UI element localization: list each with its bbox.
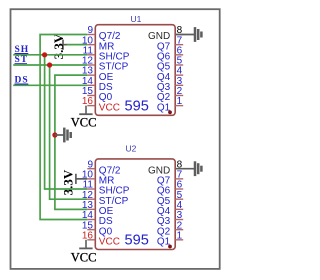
U1 pin name Q1: [157, 102, 171, 113]
U1 left pin 15 stub: [87, 94, 95, 96]
U1 pin number 2: [177, 86, 183, 97]
svg-text:1: 1: [177, 230, 183, 241]
wire ST net horizontal to U1 pin 12: [13, 64, 87, 66]
power symbol 3.3V at U1 pin 10: [51, 33, 68, 59]
U1 pin name GND: [148, 31, 170, 42]
U2 left pin 13 stub: [87, 208, 95, 210]
U1 right pin 2 stub: [175, 94, 183, 96]
power symbol VCC at U1 pin 16: [71, 106, 97, 130]
power symbol 3.3V at U2 pin 10: [60, 169, 87, 195]
svg-text:595: 595: [125, 233, 149, 249]
U2 pin name Q3: [157, 216, 171, 227]
U2 pin number 1: [177, 230, 183, 241]
U2 pin number 4: [177, 200, 183, 211]
U2 right pin 8 stub: [175, 168, 183, 170]
wire OE net U1 pin 13 to U2 pin 13: [55, 75, 87, 209]
U1 pin number 9: [87, 25, 93, 36]
U2 pin number 13: [82, 200, 94, 211]
U1 right pin 7 stub: [175, 44, 183, 46]
U2 pin name Q7: [157, 176, 171, 187]
U1 pin name Q5: [157, 62, 171, 73]
svg-text:VCC: VCC: [71, 116, 97, 130]
wire SH net horizontal to U1 pin 11: [13, 54, 87, 56]
U2 pin number 5: [177, 190, 183, 201]
U1 pin number 8: [177, 25, 183, 36]
U1 left pin 12 stub: [87, 64, 95, 66]
U1 pin number 6: [177, 45, 183, 56]
U1 pin number 15: [82, 86, 94, 97]
U2 pin name Q4: [157, 206, 171, 217]
U2 pin number 9: [87, 159, 93, 170]
U2 pin number 14: [82, 210, 94, 221]
U2 pin name Q2: [157, 226, 171, 237]
svg-text:16: 16: [82, 230, 94, 241]
U2 pin number 7: [177, 169, 183, 180]
net label SH: [15, 45, 30, 55]
U2 pin name Q0: [99, 226, 113, 237]
U2 pin name SH/CP: [99, 186, 130, 197]
U1 pin name Q2: [157, 92, 171, 103]
U1 pin number 5: [177, 56, 183, 67]
svg-text:VCC: VCC: [99, 237, 120, 248]
U1 pin-1 marker dot: [168, 110, 172, 114]
U2 left pin 12 stub: [87, 198, 95, 200]
U1 pin name ST/CP: [99, 62, 129, 73]
U2 left pin 15 stub: [87, 229, 95, 231]
U1 pin name Q4: [157, 72, 171, 83]
U2 right pin 7 stub: [175, 178, 183, 180]
wire SH vertical branch to U2 pin 11: [45, 55, 88, 189]
U1 right pin 8 stub: [175, 34, 183, 36]
U2 right pin 2 stub: [175, 229, 183, 231]
IC U1 74HC595 body: [95, 25, 175, 116]
junction ST net: [47, 62, 52, 67]
U2 pin number 15: [82, 220, 94, 231]
U1 pin number 4: [177, 66, 183, 77]
svg-text:595: 595: [125, 98, 149, 114]
U2 left pin 10 stub: [87, 178, 95, 180]
U2 pin name Q7/2: [99, 165, 121, 176]
ground symbol GND at U2 pin 8: [176, 161, 202, 176]
U1 right pin 1 stub: [175, 105, 183, 107]
wire DS net horizontal to U1 pin 14: [13, 84, 87, 86]
U1 value label 595: [125, 98, 149, 114]
U2 pin name GND: [148, 165, 170, 176]
svg-text:3.3V: 3.3V: [60, 169, 75, 195]
U1 pin name Q0: [99, 92, 113, 103]
net label DS: [15, 75, 29, 85]
U2 pin name MR: [99, 176, 115, 187]
U1 pin number 14: [82, 76, 94, 87]
U1 left pin 9 stub: [87, 34, 95, 36]
U1 pin number 16: [82, 96, 94, 107]
U1 pin name OE: [99, 72, 114, 83]
U1 left pin 16 stub: [87, 105, 95, 107]
U2 right pin 5 stub: [175, 198, 183, 200]
U2 pin number 8: [177, 159, 183, 170]
U1 right pin 6 stub: [175, 54, 183, 56]
U2 pin number 2: [177, 220, 183, 231]
wire ST vertical branch to U2 pin 12: [50, 65, 88, 199]
U2 pin-1 marker dot: [168, 245, 172, 249]
U2 left pin 11 stub: [87, 188, 95, 190]
U1 right pin 5 stub: [175, 64, 183, 66]
U2 left pin 16 stub: [87, 239, 95, 241]
U2 pin number 16: [82, 230, 94, 241]
U2 pin name OE: [99, 206, 114, 217]
U1 left pin 14 stub: [87, 84, 95, 86]
svg-text:U1: U1: [131, 14, 142, 24]
U1 pin name SH/CP: [99, 52, 130, 63]
U1 pin name Q6: [157, 52, 171, 63]
U2 left pin 14 stub: [87, 219, 95, 221]
U2 left pin 9 stub: [87, 168, 95, 170]
U1 left pin 13 stub: [87, 74, 95, 76]
svg-text:VCC: VCC: [71, 250, 97, 264]
U2 pin number 6: [177, 180, 183, 191]
U1 pin name DS: [99, 82, 113, 93]
net label ST: [15, 55, 29, 65]
wire U1 Q7/2 to U2 DS (daisy chain): [40, 35, 87, 220]
refdes U2 label: [126, 144, 137, 154]
U1 pin number 11: [83, 45, 94, 56]
U2 right pin 6 stub: [175, 188, 183, 190]
U1 pin number 13: [82, 66, 94, 77]
U1 pin name VCC: [99, 102, 120, 113]
U2 pin name Q5: [157, 196, 171, 207]
svg-text:16: 16: [82, 96, 94, 107]
svg-text:VCC: VCC: [99, 102, 120, 113]
U2 right pin 4 stub: [175, 208, 183, 210]
U2 pin number 3: [177, 210, 183, 221]
refdes U1 label: [131, 14, 142, 24]
wire MR net to U1 pin 10 from 3.3V symbol: [67, 44, 88, 46]
IC U2 74HC595 body: [95, 159, 175, 250]
U2 pin name DS: [99, 216, 113, 227]
U1 pin number 7: [177, 35, 183, 46]
U2 right pin 1 stub: [175, 239, 183, 241]
ground symbol GND on OE net: [55, 128, 71, 143]
power symbol VCC at U2 pin 16: [71, 240, 97, 264]
U1 left pin 10 stub: [87, 44, 95, 46]
svg-text:1: 1: [177, 96, 183, 107]
U1 pin name Q3: [157, 82, 171, 93]
U2 pin number 10: [82, 169, 94, 180]
U1 pin name Q7/2: [99, 31, 121, 42]
border frame: [11, 9, 220, 269]
U1 pin name Q7: [157, 41, 171, 52]
U2 pin name Q6: [157, 186, 171, 197]
U2 right pin 3 stub: [175, 219, 183, 221]
U2 pin number 12: [82, 190, 94, 201]
U1 right pin 4 stub: [175, 74, 183, 76]
U1 pin number 1: [177, 96, 183, 107]
U1 pin name MR: [99, 41, 115, 52]
ground symbol GND at U1 pin 8: [176, 27, 202, 42]
U1 pin number 12: [82, 56, 94, 67]
junction OE net at GND tap: [52, 132, 57, 137]
U2 pin name ST/CP: [99, 196, 129, 207]
U2 value label 595: [125, 233, 149, 249]
U1 pin number 10: [82, 35, 94, 46]
U2 pin name VCC: [99, 237, 120, 248]
U1 right pin 3 stub: [175, 84, 183, 86]
U1 left pin 11 stub: [87, 54, 95, 56]
U1 pin number 3: [177, 76, 183, 87]
U2 pin name Q1: [157, 237, 171, 248]
svg-text:U2: U2: [126, 144, 137, 154]
junction SH net: [42, 52, 47, 57]
U2 pin number 11: [83, 180, 94, 191]
